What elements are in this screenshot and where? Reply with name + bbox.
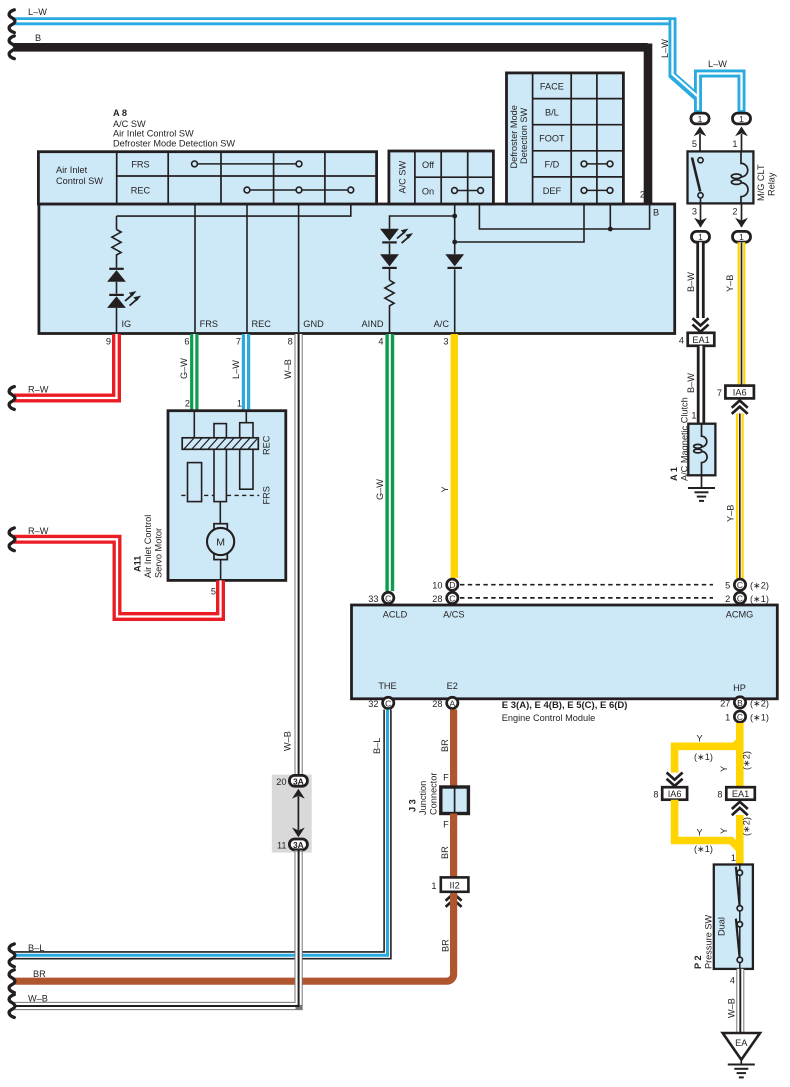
wire On col4 to B entry <box>479 205 649 229</box>
pin circle C (2, ACMG *1) <box>734 592 745 603</box>
servo wire from pin2 to commutator <box>193 411 195 438</box>
junction box EA1 (top) <box>688 333 715 346</box>
contact rect right lower <box>240 449 253 489</box>
svg-text:E 3(A), E 4(B), E 5(C), E 6(D): E 3(A), E 4(B), E 5(C), E 6(D) <box>502 700 628 711</box>
arrow up into 3A top <box>292 789 305 799</box>
P2 switch 1 contact top <box>737 870 742 875</box>
wire Y IA6 down and over (*1) <box>675 800 740 850</box>
pin circle C (28, A/CS) <box>447 592 458 603</box>
svg-text:L–W: L–W <box>28 7 47 17</box>
svg-text:HP: HP <box>733 683 746 693</box>
wire W-B from GND pin 8 down <box>295 334 303 774</box>
svg-text:D: D <box>449 580 455 590</box>
svg-text:Y: Y <box>719 828 729 834</box>
pin circle C (33, ACLD) <box>383 592 394 603</box>
junction box II2 <box>441 877 469 891</box>
relay switch stub to box bottom <box>700 198 702 204</box>
junction box EA1 (8) <box>726 787 755 800</box>
ground triangle EA <box>723 1033 760 1060</box>
svg-text:(∗2): (∗2) <box>742 817 752 836</box>
LED (IG chain) <box>107 294 126 308</box>
wire R-W servo pin 5 loop <box>14 539 221 616</box>
dashed link A/CS to ACMG (*1) <box>460 597 713 599</box>
svg-text:Engine Control Module: Engine Control Module <box>502 713 595 723</box>
table: Defroster Mode Detection SW <box>507 73 624 204</box>
wire L-W main horizontal top feed <box>14 17 676 25</box>
pin circle B (27, HP *2) <box>734 697 745 708</box>
pin circle C (32, THE) <box>383 697 394 708</box>
diode (AIND chain) <box>380 254 399 269</box>
squiggle R-W <box>9 387 15 410</box>
svg-text:A 1: A 1 <box>669 467 679 481</box>
arrow out pin3 <box>694 218 707 228</box>
svg-text:EA: EA <box>735 1038 748 1048</box>
svg-text:7: 7 <box>236 337 241 347</box>
svg-text:REC: REC <box>262 435 272 455</box>
svg-text:Air Inlet Control SW: Air Inlet Control SW <box>113 129 194 139</box>
svg-text:C: C <box>737 712 743 722</box>
svg-text:BR: BR <box>33 969 46 979</box>
svg-text:(∗1): (∗1) <box>750 713 769 723</box>
P2 switch 1 arm <box>736 867 740 906</box>
svg-text:C: C <box>737 580 743 590</box>
squiggle BR <box>9 970 15 993</box>
table row divider <box>117 175 377 177</box>
relay coil <box>731 151 748 203</box>
svg-text:F: F <box>443 820 449 830</box>
On row contacts <box>455 190 481 192</box>
svg-text:ACLD: ACLD <box>383 610 408 620</box>
servo wire from pin1 to brush <box>245 411 247 423</box>
wire IG chain verticals <box>116 216 118 332</box>
svg-text:W–B: W–B <box>283 359 293 379</box>
diode (A/C chain) <box>445 254 464 269</box>
svg-text:6: 6 <box>184 337 189 347</box>
svg-text:W–B: W–B <box>727 998 737 1018</box>
LED (AIND chain) <box>380 229 399 244</box>
svg-text:J 3: J 3 <box>408 799 418 812</box>
relay box U: M/G CLT Relay <box>688 151 754 203</box>
connector oval below pin2 <box>733 231 751 242</box>
svg-text:F/D: F/D <box>544 159 559 169</box>
junction dot DEF col4 <box>608 227 613 232</box>
squiggle B <box>9 36 15 59</box>
svg-text:L–W: L–W <box>708 59 727 69</box>
svg-text:G–W: G–W <box>375 479 385 500</box>
svg-text:IG: IG <box>122 319 132 329</box>
arrow into oval 5 <box>694 127 707 137</box>
P2 switch 2 arm <box>736 919 740 958</box>
connector oval pin (right, to relay pin 1) <box>733 113 751 124</box>
svg-text:28: 28 <box>432 594 442 604</box>
wire stub relay pin2 <box>741 203 743 227</box>
dashed link A/CS to ACMG (*2) <box>460 584 713 586</box>
component box P2 Pressure SW <box>714 865 753 969</box>
P2 switch 2 contact bottom <box>737 957 742 962</box>
svg-text:C: C <box>737 593 743 603</box>
svg-text:27: 27 <box>720 698 730 708</box>
svg-text:DEF: DEF <box>543 186 562 196</box>
svg-text:Defroster Mode: Defroster Mode <box>509 105 519 168</box>
junction dot A/C-AIND <box>452 214 457 219</box>
svg-text:AIND: AIND <box>362 319 384 329</box>
svg-text:EA1: EA1 <box>732 789 749 799</box>
svg-text:Connector: Connector <box>429 773 439 815</box>
junction box IA6 (8) <box>662 787 687 800</box>
table: Air Inlet Control SW <box>38 152 376 204</box>
svg-text:A/CS: A/CS <box>443 610 464 620</box>
chevrons into EA1 <box>693 318 709 331</box>
wire GND column <box>298 205 300 332</box>
svg-text:Detection SW: Detection SW <box>519 108 529 164</box>
svg-text:BR: BR <box>440 846 450 859</box>
svg-text:B–L: B–L <box>28 943 44 953</box>
svg-text:F: F <box>443 773 449 783</box>
wire Y-B IA6 to ECM pin5 <box>736 414 744 579</box>
chevrons below II2 <box>446 894 462 907</box>
hatched commutator bar REC <box>182 438 258 450</box>
svg-text:A 8: A 8 <box>113 108 127 118</box>
svg-text:Y: Y <box>719 766 729 772</box>
wire Y A/C pin3 to A/CS <box>451 334 458 578</box>
table: A/C SW <box>389 151 494 204</box>
motor lead <box>219 502 221 524</box>
svg-text:1: 1 <box>725 713 730 723</box>
svg-text:B/L: B/L <box>545 108 559 118</box>
svg-text:28: 28 <box>432 699 442 709</box>
svg-text:Pressure SW: Pressure SW <box>704 915 714 969</box>
svg-text:8: 8 <box>288 337 293 347</box>
svg-text:(∗1): (∗1) <box>694 844 713 854</box>
svg-text:GND: GND <box>303 319 324 329</box>
svg-text:33: 33 <box>368 594 378 604</box>
svg-text:Control SW: Control SW <box>56 176 103 186</box>
wire L-W REC pin 7 to servo pin 1 <box>242 334 250 411</box>
J3 divider <box>454 787 456 814</box>
svg-text:1: 1 <box>431 881 436 891</box>
wire stub pin1 <box>741 134 743 151</box>
svg-text:5: 5 <box>725 581 730 591</box>
svg-text:4: 4 <box>378 337 383 347</box>
wire stub pin5 <box>699 134 701 151</box>
svg-text:EA1: EA1 <box>692 335 709 345</box>
wire W-B P2 to EA ground <box>736 969 744 1033</box>
svg-text:Y: Y <box>440 486 450 492</box>
ground symbol (clutch) <box>688 488 715 501</box>
wire R-W from IG pin 9 <box>14 334 117 398</box>
dashed FRS line <box>181 494 259 496</box>
svg-text:2: 2 <box>185 399 190 409</box>
svg-text:3: 3 <box>443 337 448 347</box>
svg-text:1: 1 <box>739 114 744 124</box>
svg-text:1: 1 <box>739 232 744 242</box>
svg-text:A/C SW: A/C SW <box>113 119 146 129</box>
svg-text:Relay: Relay <box>767 172 777 196</box>
contact rect mid lower <box>214 449 226 501</box>
motor M circle <box>207 528 234 555</box>
wire Y EA1 down to P2 pin1 (*2) <box>736 815 744 865</box>
connector oval below pin3 <box>692 231 710 242</box>
link line between 3A connectors <box>297 796 299 830</box>
svg-text:E2: E2 <box>447 681 458 691</box>
svg-text:A11: A11 <box>133 556 143 572</box>
svg-text:Off: Off <box>422 160 435 170</box>
table col dividers <box>117 152 325 204</box>
wire BR E2 to J3 <box>450 710 457 788</box>
svg-text:B–W: B–W <box>686 272 696 292</box>
svg-text:FRS: FRS <box>262 486 272 504</box>
arrow down into 3A bottom <box>292 828 305 838</box>
svg-text:3A: 3A <box>293 776 304 786</box>
svg-text:C: C <box>385 593 391 603</box>
svg-text:10: 10 <box>432 581 442 591</box>
ground lead <box>740 1060 742 1064</box>
svg-text:5: 5 <box>692 139 697 149</box>
svg-text:11: 11 <box>277 841 287 851</box>
FRS row contacts <box>195 163 300 165</box>
svg-text:8: 8 <box>653 790 658 800</box>
svg-text:FRS: FRS <box>200 319 218 329</box>
svg-text:Y–B: Y–B <box>726 505 736 522</box>
wire IG feed from REC col6 <box>117 205 351 216</box>
svg-text:1: 1 <box>698 114 703 124</box>
svg-text:A/C: A/C <box>434 319 450 329</box>
pin circle C (5, ACMG *2) <box>734 579 745 590</box>
svg-text:Defroster Mode Detection SW: Defroster Mode Detection SW <box>113 138 235 148</box>
svg-text:32: 32 <box>368 699 378 709</box>
F/D row contacts <box>584 163 610 165</box>
svg-text:(∗1): (∗1) <box>750 594 769 604</box>
relay switch contact bottom <box>698 193 703 198</box>
svg-text:REC: REC <box>252 319 272 329</box>
col dividers <box>533 73 597 204</box>
relay switch arm <box>692 158 700 192</box>
wire A/C column + links <box>454 205 456 332</box>
wire G-W FRS pin 6 to servo pin 2 <box>190 334 198 411</box>
svg-text:REC: REC <box>131 186 151 196</box>
svg-text:1: 1 <box>698 232 703 242</box>
wire W-B lower run to left edge <box>14 850 299 1006</box>
squiggle R-W second <box>9 528 15 551</box>
svg-text:(∗2): (∗2) <box>742 751 752 770</box>
svg-text:(∗2): (∗2) <box>750 581 769 591</box>
wire B-L THE to left edge <box>14 710 388 956</box>
motor brush cap top <box>214 524 227 530</box>
resistor (AIND chain) <box>385 280 394 306</box>
svg-text:Junction: Junction <box>418 781 428 815</box>
svg-text:B: B <box>35 33 41 43</box>
svg-text:M/G CLT: M/G CLT <box>756 164 766 201</box>
svg-text:ACMG: ACMG <box>726 610 754 620</box>
svg-text:A: A <box>449 698 455 708</box>
svg-text:4: 4 <box>679 336 684 346</box>
svg-text:Air Inlet Control: Air Inlet Control <box>143 515 153 578</box>
wire AIND chain verticals <box>389 244 391 332</box>
svg-text:(∗2): (∗2) <box>750 698 769 708</box>
svg-text:Y–B: Y–B <box>725 275 735 292</box>
svg-text:M: M <box>216 537 225 549</box>
squiggle B-L <box>9 944 15 967</box>
diode (IG chain) <box>107 268 126 282</box>
svg-text:2: 2 <box>640 190 645 200</box>
svg-text:9: 9 <box>106 337 111 347</box>
ground symbol (EA) <box>728 1065 755 1078</box>
svg-text:20: 20 <box>276 777 286 787</box>
svg-text:R–W: R–W <box>28 385 49 395</box>
svg-text:FACE: FACE <box>540 82 564 92</box>
wire W-B 3A-pair zone <box>272 775 312 853</box>
P2 interior wire <box>739 865 741 969</box>
svg-text:B: B <box>653 208 659 218</box>
svg-text:3: 3 <box>692 207 697 217</box>
svg-text:C: C <box>385 698 391 708</box>
svg-text:Y: Y <box>697 828 703 838</box>
svg-text:(∗1): (∗1) <box>694 752 713 762</box>
svg-text:1: 1 <box>237 399 242 409</box>
wire Y-B relay to IA6 <box>738 242 746 385</box>
connector oval 3A (11) <box>289 839 307 850</box>
pin circle D (10, A/CS) <box>447 579 458 590</box>
wire Y branch to IA6 (*1) <box>675 741 740 773</box>
contact rect left lower <box>188 463 202 502</box>
component box A1 A/C Magnetic Clutch <box>688 424 715 476</box>
P2 switch 2 contact top <box>737 922 742 927</box>
motor lead bottom <box>220 560 222 581</box>
wire B main horizontal + drop <box>14 44 648 205</box>
wire Y HP down with split <box>736 723 744 787</box>
wire A/C to DEF col3 <box>455 205 584 242</box>
ground lead from clutch <box>701 475 703 488</box>
row dividers <box>533 99 624 177</box>
wire L-W drop to relay: vertical, diagonal, branch to two connectors <box>673 18 742 113</box>
svg-text:B: B <box>737 698 743 708</box>
P2 switch 1 contact bottom <box>737 906 742 911</box>
svg-text:2: 2 <box>732 207 737 217</box>
row divider <box>415 176 494 178</box>
svg-text:7: 7 <box>717 388 722 398</box>
svg-text:B–W: B–W <box>686 373 696 393</box>
wire FRS column <box>194 205 196 332</box>
REC row contacts <box>247 189 351 191</box>
svg-text:1: 1 <box>691 411 696 421</box>
pin circle C (1, HP *1) <box>734 711 745 722</box>
wire REC column <box>246 205 248 332</box>
wire stub relay pin3 <box>700 203 702 227</box>
svg-text:C: C <box>449 593 455 603</box>
svg-text:L–W: L–W <box>660 39 670 58</box>
svg-text:1: 1 <box>731 853 736 863</box>
svg-text:W–B: W–B <box>283 731 293 751</box>
svg-text:W–B: W–B <box>28 994 48 1004</box>
squiggle L-W <box>9 10 15 33</box>
wire B-W EA1 to clutch <box>697 346 705 424</box>
resistor (IG chain) <box>112 230 121 256</box>
component box A11 <box>168 411 286 581</box>
clutch coil <box>694 424 707 476</box>
svg-text:II2: II2 <box>449 881 459 891</box>
motor brush cap bottom <box>214 554 227 560</box>
svg-text:On: On <box>422 186 434 196</box>
svg-text:G–W: G–W <box>179 358 189 379</box>
svg-text:B–L: B–L <box>372 738 382 754</box>
svg-text:R–W: R–W <box>28 526 49 536</box>
chevrons out of IA6 down <box>732 401 748 414</box>
junction dot A/C-DEF <box>452 240 457 245</box>
svg-text:FRS: FRS <box>131 159 149 169</box>
svg-text:1: 1 <box>732 139 737 149</box>
brush rect mid upper <box>214 424 226 438</box>
DEF row contacts <box>584 189 610 191</box>
arrow into oval 1 <box>735 127 748 137</box>
squiggle W-B <box>9 995 15 1018</box>
wire DEF col4 drop <box>609 205 611 229</box>
component block A8 main body <box>39 204 675 334</box>
svg-text:8: 8 <box>717 790 722 800</box>
svg-text:A/C SW: A/C SW <box>398 161 408 194</box>
svg-text:5: 5 <box>211 587 216 597</box>
svg-text:Y: Y <box>697 734 703 744</box>
wire BR II2 to left edge <box>14 893 454 981</box>
svg-text:BR: BR <box>440 939 450 952</box>
junction box IA6 (7) <box>725 386 754 399</box>
svg-text:FOOT: FOOT <box>539 134 565 144</box>
wire BR J3 to II2 <box>450 814 457 878</box>
wire G-W AIND pin4 to ACLD <box>385 334 394 591</box>
svg-text:2: 2 <box>725 594 730 604</box>
chevrons below EA1 up <box>732 802 748 815</box>
svg-text:Air Inlet: Air Inlet <box>56 165 88 175</box>
col dividers <box>415 151 468 204</box>
svg-text:4: 4 <box>730 976 735 986</box>
relay switch contact top <box>698 158 703 163</box>
arrow out pin2 <box>735 218 748 228</box>
wire B-W relay to EA1 <box>696 242 704 318</box>
svg-text:Dual: Dual <box>717 917 727 936</box>
svg-text:3A: 3A <box>293 840 304 850</box>
svg-text:A/C Magnetic Clutch: A/C Magnetic Clutch <box>680 397 690 481</box>
svg-text:IA6: IA6 <box>733 388 747 398</box>
ECM box <box>352 605 778 699</box>
connector oval 3A (20) <box>289 775 307 786</box>
svg-text:Servo Motor: Servo Motor <box>154 528 164 578</box>
connector oval pin (left, to relay pin 5) <box>691 113 709 124</box>
svg-text:IA6: IA6 <box>668 789 682 799</box>
svg-text:THE: THE <box>378 681 396 691</box>
svg-text:P 2: P 2 <box>693 955 703 969</box>
svg-text:BR: BR <box>440 739 450 752</box>
junction connector J3 box <box>441 787 469 814</box>
wire AIND link <box>390 216 455 229</box>
svg-text:L–W: L–W <box>231 360 241 379</box>
pin circle A (28, E2) <box>447 697 458 708</box>
brush rect right upper <box>240 423 253 438</box>
chevrons into IA6 (8) <box>667 773 683 786</box>
